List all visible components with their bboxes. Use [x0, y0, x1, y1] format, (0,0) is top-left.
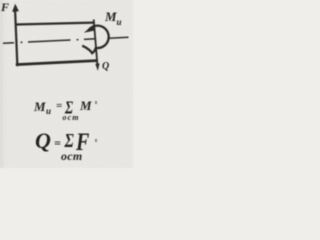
- label Q: [102, 62, 109, 72]
- centerline dash-dot: [3, 42, 14, 45]
- beam diagram: [0, 0, 133, 168]
- shear force Q shaft: [94, 20, 98, 65]
- paper noise: [0, 0, 1, 1]
- equation 1 subscript ost: [63, 114, 80, 122]
- label F: [1, 1, 9, 13]
- moment Mu arc with tail flare: [82, 26, 109, 54]
- force F arrowhead: [12, 4, 19, 12]
- label Mu: [105, 10, 117, 23]
- equation 1: Mu = sum M over ost: [34, 100, 46, 113]
- beam left edge / force F shaft: [15, 8, 17, 66]
- equation 2 subscript ost: [61, 150, 83, 162]
- beam bottom line: [16, 61, 97, 65]
- shear force Q arrowhead: [95, 63, 99, 71]
- moment Mu arrowhead: [84, 25, 94, 33]
- scan speck: [95, 139, 97, 142]
- equation 2: Q = sum F over ost: [35, 130, 51, 152]
- scan speck: [95, 101, 97, 104]
- beam top line: [16, 23, 94, 25]
